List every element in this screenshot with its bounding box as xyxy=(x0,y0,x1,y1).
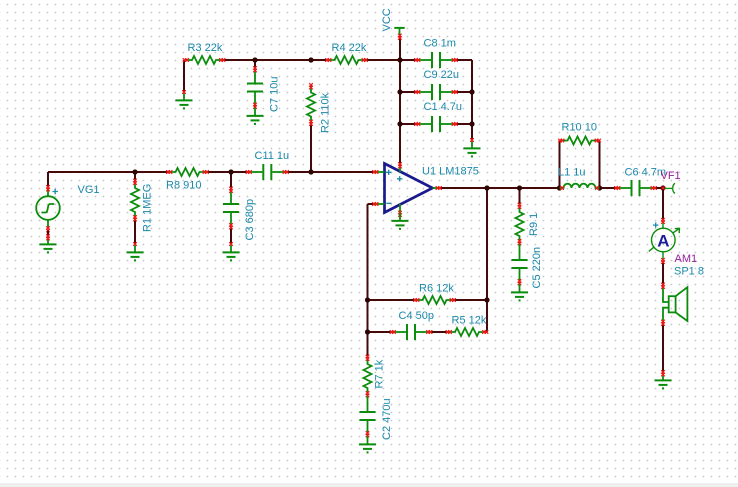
ground below speaker xyxy=(655,370,672,388)
VCC bar symbol xyxy=(394,28,404,35)
wire main input net y=172 xyxy=(48,171,168,173)
probe VF1 xyxy=(665,183,676,193)
wire R10 right riser xyxy=(599,141,601,189)
terminal L1 left xyxy=(560,186,564,190)
wire VG1 to ground xyxy=(47,231,49,237)
terminal R9 top xyxy=(518,203,522,209)
terminal C2 bottom xyxy=(366,431,370,437)
op-amp output lead xyxy=(433,187,441,189)
svg-text:VG1: VG1 xyxy=(78,184,100,196)
capacitor C11 xyxy=(247,164,287,180)
terminal VG1 minus xyxy=(46,226,50,232)
terminal R1 top xyxy=(133,179,137,185)
capacitor C2 xyxy=(360,396,376,436)
terminal R2 bottom xyxy=(309,120,313,126)
capacitor C7 xyxy=(247,68,263,108)
wire R8 to C11 xyxy=(208,171,248,173)
wire R3 right to R4 left xyxy=(224,59,327,61)
node L1 right junction xyxy=(597,185,602,190)
wire C1 right to rail xyxy=(456,123,472,125)
ground below C7 xyxy=(247,108,264,124)
capacitor C3 xyxy=(223,188,239,228)
resistor R2 xyxy=(307,85,315,125)
svg-text:C1 4.7u: C1 4.7u xyxy=(424,101,463,113)
resistor R3 xyxy=(184,56,224,64)
terminal AM1 top xyxy=(661,218,665,224)
inductor L1 xyxy=(560,184,600,188)
resistor R4 xyxy=(327,56,367,64)
wire R3 left to ground xyxy=(183,60,185,92)
node R6 right junction xyxy=(484,297,489,302)
terminal VG1 plus xyxy=(46,185,50,191)
wire C8 right to rail xyxy=(456,59,472,61)
wire AM1 to speaker xyxy=(662,263,664,285)
plus mark at input xyxy=(386,170,391,175)
wire C3 top drop xyxy=(230,172,232,188)
ammeter AM1 xyxy=(649,221,680,260)
op-amp vcc pin lead xyxy=(399,164,401,172)
resistor R6 xyxy=(415,296,455,304)
node R3/C7 junction xyxy=(252,57,257,62)
wire feedback rail from minus input xyxy=(368,204,374,356)
wire speaker to ground xyxy=(662,325,664,373)
terminal R1 bottom xyxy=(133,215,137,221)
resistor R8 xyxy=(168,168,208,176)
resistor R10 xyxy=(560,137,600,145)
svg-text:R9 1: R9 1 xyxy=(528,213,540,236)
wire output down rail to feedback xyxy=(486,188,488,332)
terminal vcc pin xyxy=(398,162,402,168)
wire C9 left lead xyxy=(400,91,416,93)
svg-text:R4 22k: R4 22k xyxy=(332,42,367,54)
capacitor C5 xyxy=(512,244,528,284)
terminal C5 bottom xyxy=(518,279,522,285)
svg-text:C3 680p: C3 680p xyxy=(244,199,256,241)
svg-text:AM1: AM1 xyxy=(675,253,698,265)
capacitor C4 xyxy=(391,324,431,340)
terminal C4 left xyxy=(390,330,396,334)
terminal C4 right xyxy=(426,330,432,334)
wire C3 bottom to ground xyxy=(230,228,232,244)
terminal R8 right xyxy=(203,170,209,174)
node R1 top xyxy=(132,169,137,174)
wire C9 right to rail xyxy=(456,91,472,93)
plus mark supply xyxy=(397,176,402,181)
resistor R5 xyxy=(447,328,487,336)
ground op-amp vee xyxy=(392,213,409,229)
svg-text:R6 12k: R6 12k xyxy=(419,283,454,295)
terminal R7 bottom xyxy=(366,391,370,397)
bottom status strip xyxy=(0,484,738,487)
svg-text:R3 22k: R3 22k xyxy=(188,42,223,54)
svg-text:VCC: VCC xyxy=(381,8,393,31)
wire VCC rail vertical xyxy=(399,37,401,165)
terminal SP1 bottom xyxy=(661,320,665,326)
op-amp U1 triangle xyxy=(385,164,433,213)
capacitor C9 xyxy=(416,84,456,100)
wire C6 right to node VF1 xyxy=(656,187,664,189)
generator VG1 xyxy=(36,188,60,229)
wire op-amp output net xyxy=(440,187,560,189)
svg-text:C2 470u: C2 470u xyxy=(381,398,393,440)
terminal VCC xyxy=(398,34,402,40)
terminal SP1 top xyxy=(661,283,665,289)
ground below R1 xyxy=(127,242,144,260)
node R9 top junction xyxy=(517,185,522,190)
wire AM1 top xyxy=(662,188,664,220)
svg-text:VF1: VF1 xyxy=(661,170,681,182)
terminal C9 left xyxy=(414,90,420,94)
node VCC rail row C9 xyxy=(397,89,402,94)
svg-text:C5 220n: C5 220n xyxy=(531,247,543,289)
node VCC rail row C1 xyxy=(397,121,402,126)
svg-text:C11 1u: C11 1u xyxy=(255,150,290,162)
node right rail row C1 xyxy=(469,121,474,126)
terminal vee pin xyxy=(398,211,402,217)
wire C4 left lead xyxy=(368,331,392,333)
wire R10 left riser xyxy=(559,141,561,189)
terminal C8 right xyxy=(452,58,458,62)
terminal output xyxy=(436,186,442,190)
capacitor C6 xyxy=(616,180,656,196)
svg-text:U1 LM1875: U1 LM1875 xyxy=(422,166,479,178)
terminal C3 top xyxy=(229,187,233,193)
svg-text:C9 22u: C9 22u xyxy=(424,69,459,81)
wire R4 right to VCC rail xyxy=(367,59,401,61)
wire R6 right lead xyxy=(455,299,488,301)
svg-text:R2 110k: R2 110k xyxy=(320,92,332,133)
wire C7 top lead xyxy=(254,60,256,68)
svg-text:R1 1MEG: R1 1MEG xyxy=(142,184,154,232)
plus sign VG1 xyxy=(53,189,58,194)
wire R1 bottom to ground xyxy=(134,220,136,244)
wire R1 top drop xyxy=(134,172,136,180)
resistor R9 xyxy=(516,204,524,244)
svg-text:A: A xyxy=(657,232,669,251)
node right rail row C9 xyxy=(469,89,474,94)
svg-text:R7 1k: R7 1k xyxy=(374,359,386,388)
terminal C1 right xyxy=(452,122,458,126)
minus mark at input xyxy=(386,202,391,204)
terminal L1 right xyxy=(595,186,599,190)
node C11/R2 junction xyxy=(308,169,313,174)
wire R2 bottom to node xyxy=(310,125,312,173)
terminal R6 left xyxy=(413,298,419,302)
terminal R5 right xyxy=(482,330,488,334)
ground below C3 xyxy=(223,242,240,260)
node R6 left junction xyxy=(365,297,370,302)
ground right decoupling rail xyxy=(464,138,481,156)
ground below VG1 xyxy=(40,234,57,252)
svg-text:R8 910: R8 910 xyxy=(166,180,201,192)
terminal R8 left xyxy=(166,170,172,174)
wire C1 left lead xyxy=(400,123,416,125)
terminal C3 bottom xyxy=(229,223,233,229)
op-amp plus input lead xyxy=(374,171,385,173)
terminal R6 right xyxy=(450,298,456,302)
svg-text:C7 10u: C7 10u xyxy=(269,77,281,112)
plus sign AM1 xyxy=(653,222,658,227)
resistor R7 xyxy=(364,356,372,396)
capacitor C1 xyxy=(416,116,456,132)
ground below C2 xyxy=(359,436,376,452)
node VF1 junction xyxy=(660,185,665,190)
wire C4 to R5 xyxy=(431,331,447,333)
terminal C9 right xyxy=(452,90,458,94)
svg-text:L1 1u: L1 1u xyxy=(558,167,586,179)
terminal C1 left xyxy=(414,122,420,126)
terminal C6 left xyxy=(614,186,620,190)
terminal R5 left xyxy=(446,330,452,334)
svg-text:C4 50p: C4 50p xyxy=(399,310,434,322)
terminal C8 left xyxy=(414,58,420,62)
node C4 left junction xyxy=(365,329,370,334)
ground below C5 xyxy=(511,284,528,300)
wire L1 right to C6 xyxy=(600,187,616,189)
terminal minus input xyxy=(372,202,378,206)
terminal R4 right xyxy=(362,58,368,62)
svg-text:R5 12k: R5 12k xyxy=(452,314,487,326)
op-amp minus input lead xyxy=(374,203,385,205)
terminal C7 top xyxy=(253,66,257,72)
node output junction xyxy=(484,185,489,190)
terminal R3 right xyxy=(219,58,225,62)
svg-text:C8 1m: C8 1m xyxy=(424,38,456,50)
terminal plus input xyxy=(372,170,378,174)
terminal R9 bottom xyxy=(518,239,522,245)
node L1 left junction xyxy=(557,185,562,190)
wire R9 top drop xyxy=(519,188,521,204)
resistor R1 xyxy=(131,180,139,220)
wire VG1 top lead xyxy=(47,172,49,187)
node R4/R2 junction xyxy=(308,57,313,62)
op-amp vee pin lead xyxy=(399,204,401,213)
node VCC rail row C8 xyxy=(397,57,402,62)
terminal R7 top xyxy=(366,355,370,361)
ground below R3 xyxy=(176,90,193,108)
node C3 top xyxy=(228,169,233,174)
terminal R4 left xyxy=(325,58,331,62)
speaker SP1 xyxy=(663,285,687,324)
wire C8 left lead xyxy=(400,59,416,61)
svg-text:SP1 8: SP1 8 xyxy=(674,266,704,278)
svg-text:R10 10: R10 10 xyxy=(562,122,597,134)
wire C11 to op-amp plus input xyxy=(287,171,374,173)
terminal R2 top xyxy=(309,83,313,89)
terminal C11 left xyxy=(246,170,252,174)
terminal R10 left xyxy=(558,139,564,143)
capacitor C8 xyxy=(416,52,456,68)
terminal C6 right xyxy=(651,186,657,190)
terminal R10 right xyxy=(595,139,601,143)
terminal C7 bottom xyxy=(253,103,257,109)
terminal C11 right xyxy=(283,170,289,174)
wire R6 left lead xyxy=(368,299,415,301)
wire right decoupling rail xyxy=(471,60,473,140)
terminal AM1 bottom xyxy=(661,258,665,264)
terminal R3 left xyxy=(183,58,189,62)
